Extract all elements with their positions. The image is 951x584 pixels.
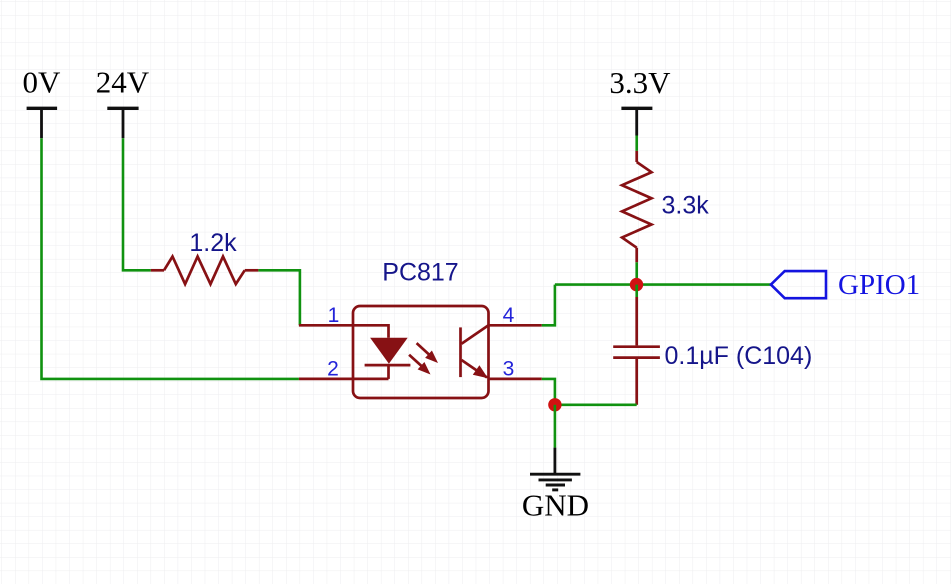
svg-text:0V: 0V — [23, 65, 62, 100]
power flag 24V — [96, 65, 150, 139]
svg-text:1.2k: 1.2k — [189, 229, 237, 257]
light arrow 1 — [417, 343, 438, 363]
svg-text:2: 2 — [327, 358, 339, 381]
pin2 internal lead — [353, 378, 389, 381]
capacitor C1 0.1uF — [613, 297, 812, 405]
wire 0V to pin2 — [42, 138, 299, 379]
power flag 3.3V — [609, 65, 671, 136]
LED anode lead — [353, 325, 389, 337]
LED cathode lead — [387, 365, 390, 379]
svg-text:1: 1 — [328, 304, 340, 327]
pin 3 — [489, 358, 542, 381]
op-amp U1 PC817 optocoupler — [353, 259, 489, 399]
wire R2 to node — [635, 262, 638, 284]
wire node to GPIO1 — [555, 283, 771, 286]
svg-text:4: 4 — [503, 304, 515, 327]
svg-text:GPIO1: GPIO1 — [838, 269, 920, 301]
wire C1 to node2 — [555, 403, 637, 406]
wire 3.3V to R2 — [635, 136, 638, 151]
junction node A — [630, 278, 643, 291]
svg-text:GND: GND — [522, 488, 589, 523]
junction node B — [548, 398, 561, 411]
power flag 0V — [23, 65, 62, 139]
hierarchical label GPIO1 — [771, 269, 920, 301]
svg-text:3.3k: 3.3k — [662, 192, 710, 220]
LED cathode bar — [365, 364, 411, 367]
ground — [522, 448, 589, 523]
wire pin4 to node — [542, 285, 555, 326]
pin 1 — [299, 304, 353, 327]
pin 2 — [299, 358, 353, 381]
resistor 1.2k — [151, 229, 259, 284]
svg-text:3.3V: 3.3V — [609, 65, 671, 100]
wire R1 to pin1 — [258, 270, 300, 325]
pin 4 — [489, 304, 542, 327]
transistor emitter — [462, 360, 489, 378]
wire pin3 to node2 — [542, 379, 555, 405]
wire node to C1 — [635, 285, 638, 297]
svg-text:PC817: PC817 — [382, 259, 458, 287]
wire 24V to R1 — [123, 138, 151, 270]
resistor 3.3k — [622, 151, 709, 262]
svg-text:3: 3 — [503, 358, 515, 381]
svg-text:24V: 24V — [96, 65, 150, 100]
transistor collector — [462, 325, 489, 343]
LED triangle — [370, 338, 408, 364]
light arrow 2 — [409, 355, 430, 375]
transistor base bar — [459, 327, 462, 377]
svg-text:0.1µF (C104): 0.1µF (C104) — [665, 342, 813, 370]
wire node2 to GND — [554, 405, 557, 448]
